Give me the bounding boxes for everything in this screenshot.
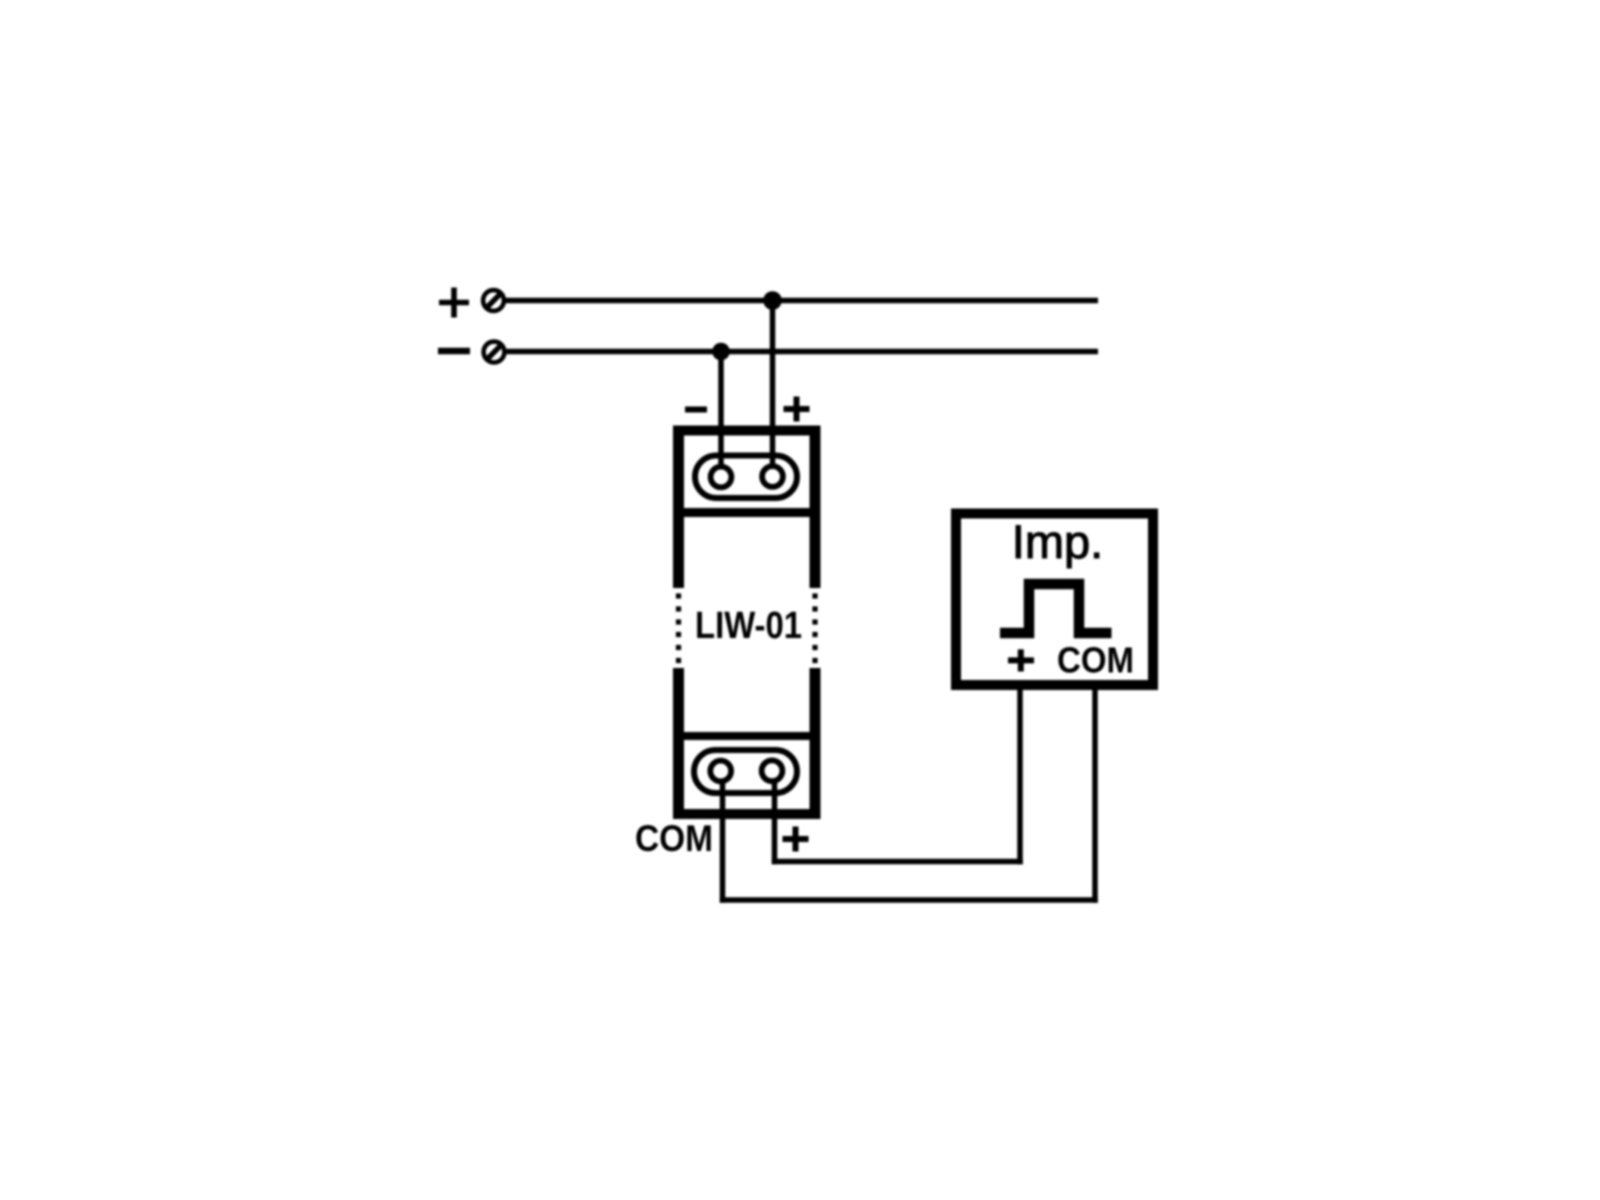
wire: COM up to Imp box <box>1092 690 1098 903</box>
wire: module COM terminal down <box>720 779 726 903</box>
module LIW-01 right wall upper <box>810 426 821 589</box>
module LIW-01 left wall lower <box>673 668 684 819</box>
label + (module top right terminal) <box>784 397 810 422</box>
top terminal circle - (pin) <box>711 467 732 488</box>
svg-text:Imp.: Imp. <box>1012 515 1103 568</box>
bottom terminal block stadium <box>694 750 797 793</box>
module left wall dotted section <box>676 593 681 663</box>
junction on + rail <box>763 291 782 310</box>
top terminal circle + (pin) <box>762 466 783 487</box>
wire: COM horizontal run <box>720 897 1098 903</box>
screw terminal (positive supply) <box>483 290 504 311</box>
bottom terminal circle + (pin) <box>762 760 783 781</box>
label + (module output) <box>783 827 809 852</box>
top terminal block stadium <box>695 456 797 499</box>
wire: + rail <box>506 298 1098 304</box>
wire: + horizontal run <box>772 859 1023 865</box>
label + (Imp box) <box>1008 649 1034 671</box>
top terminal block bottom bar <box>684 508 810 517</box>
svg-text:LIW-01: LIW-01 <box>695 605 802 647</box>
wire: + up to Imp box <box>1017 690 1023 864</box>
screw terminal (negative supply) <box>484 342 505 363</box>
pulse symbol <box>1000 584 1112 633</box>
wire: - rail <box>507 349 1099 355</box>
node + (positive supply label) <box>439 288 469 318</box>
module LIW-01 right wall lower <box>810 668 821 819</box>
svg-text:COM: COM <box>635 817 713 859</box>
Imp box (pulse counter) <box>956 514 1153 686</box>
bottom terminal circle COM (pin) <box>710 761 731 782</box>
module LIW-01 left wall upper <box>673 426 684 589</box>
bottom terminal block top bar <box>684 732 810 740</box>
junction on - rail <box>712 343 730 361</box>
module LIW-01 bottom bar <box>673 809 821 819</box>
node - (negative supply label) <box>438 348 470 355</box>
module LIW-01 top bar <box>673 426 821 436</box>
label - (module top left terminal) <box>685 407 707 413</box>
wire: + rail down to module + input <box>770 301 776 470</box>
svg-text:COM: COM <box>1057 640 1134 681</box>
wire: - rail down to module - input <box>718 352 724 470</box>
module right wall dotted section <box>812 593 817 663</box>
wire: module + terminal down <box>772 779 778 865</box>
